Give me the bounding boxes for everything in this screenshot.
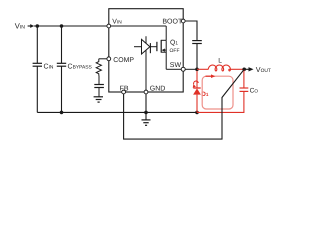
wire SW to node [185, 68, 197, 70]
node junction dot VOUT [242, 68, 246, 72]
wire SW node to inductor (red) [197, 68, 208, 70]
svg-text:CO: CO [250, 87, 259, 94]
pin GND circle [144, 90, 148, 94]
capacitor CBYPASS [57, 63, 93, 70]
wire CBYPASS bottom lead [61, 66, 63, 112]
wire ground rail bottom [37, 111, 197, 113]
svg-text:OFF: OFF [170, 48, 180, 54]
wire CIN top lead [36, 26, 38, 63]
capacitor CBOOT [192, 41, 202, 44]
wire FB feedback path [124, 69, 245, 139]
svg-text:CIN: CIN [44, 63, 54, 70]
ground COMP network [94, 97, 103, 102]
node junction dot D1 rail [195, 111, 199, 115]
pin FB circle [122, 90, 126, 94]
diode D1 (red) [193, 88, 201, 112]
svg-text:GND: GND [150, 86, 166, 93]
svg-text:L: L [218, 58, 222, 65]
node junction dot CBYPASS rail [60, 111, 64, 115]
svg-text:COMP: COMP [113, 57, 134, 64]
pin BOOT circle [181, 19, 185, 23]
inductor L (red) [208, 65, 230, 71]
node junction dot CBYPASS [60, 24, 64, 28]
wire inductor to VOUT node (red) [229, 68, 245, 70]
wire Q1 source to SW [166, 68, 181, 70]
wire CBOOT bottom to SW node [196, 44, 198, 70]
node junction dot GND-rail [144, 111, 148, 115]
wire SW node down to D1 (red) [196, 71, 198, 88]
wire VOUT to Co (red) [243, 69, 245, 88]
wire internal VIN rail [111, 25, 166, 27]
svg-text:Q1: Q1 [170, 40, 178, 47]
capacitor CCOMP [94, 76, 104, 97]
VIN input arrow [28, 24, 35, 28]
wire VIN rail [34, 25, 109, 27]
node VIN input label [15, 22, 25, 31]
pin COMP circle [107, 57, 111, 61]
wire CBYPASS top lead [61, 26, 63, 63]
node junction dot SW-CBOOT [195, 68, 199, 72]
VOUT arrow [244, 67, 253, 71]
wire BOOT to cap [185, 21, 197, 40]
pin SW circle [181, 67, 185, 71]
transistor Q1 [157, 40, 166, 69]
wire Q1 drain lead [165, 26, 167, 40]
wire CIN bottom lead [36, 66, 38, 112]
IC box U1 [109, 9, 183, 92]
svg-text:CBYPASS: CBYPASS [68, 63, 93, 70]
current curl arrow on D1 (red) [194, 81, 199, 84]
node junction dot CIN [36, 24, 40, 28]
wire Co bottom to ground rail (red) [197, 91, 244, 112]
svg-text:BOOT: BOOT [162, 19, 183, 26]
ground symbol GND [142, 120, 151, 125]
pin VIN circle [107, 24, 111, 28]
svg-text:FB: FB [120, 86, 129, 93]
resistor RCOMP [96, 59, 101, 76]
svg-text:SW: SW [170, 62, 182, 69]
capacitor Co (red) [240, 88, 249, 91]
svg-text:VIN: VIN [112, 19, 122, 26]
current loop annotation (red) [202, 74, 233, 109]
wire GND pin to rail [145, 94, 147, 120]
diode internal gate-driver (with GND riser) [134, 36, 157, 92]
capacitor CIN [33, 63, 54, 70]
wire COMP lead [99, 58, 107, 60]
